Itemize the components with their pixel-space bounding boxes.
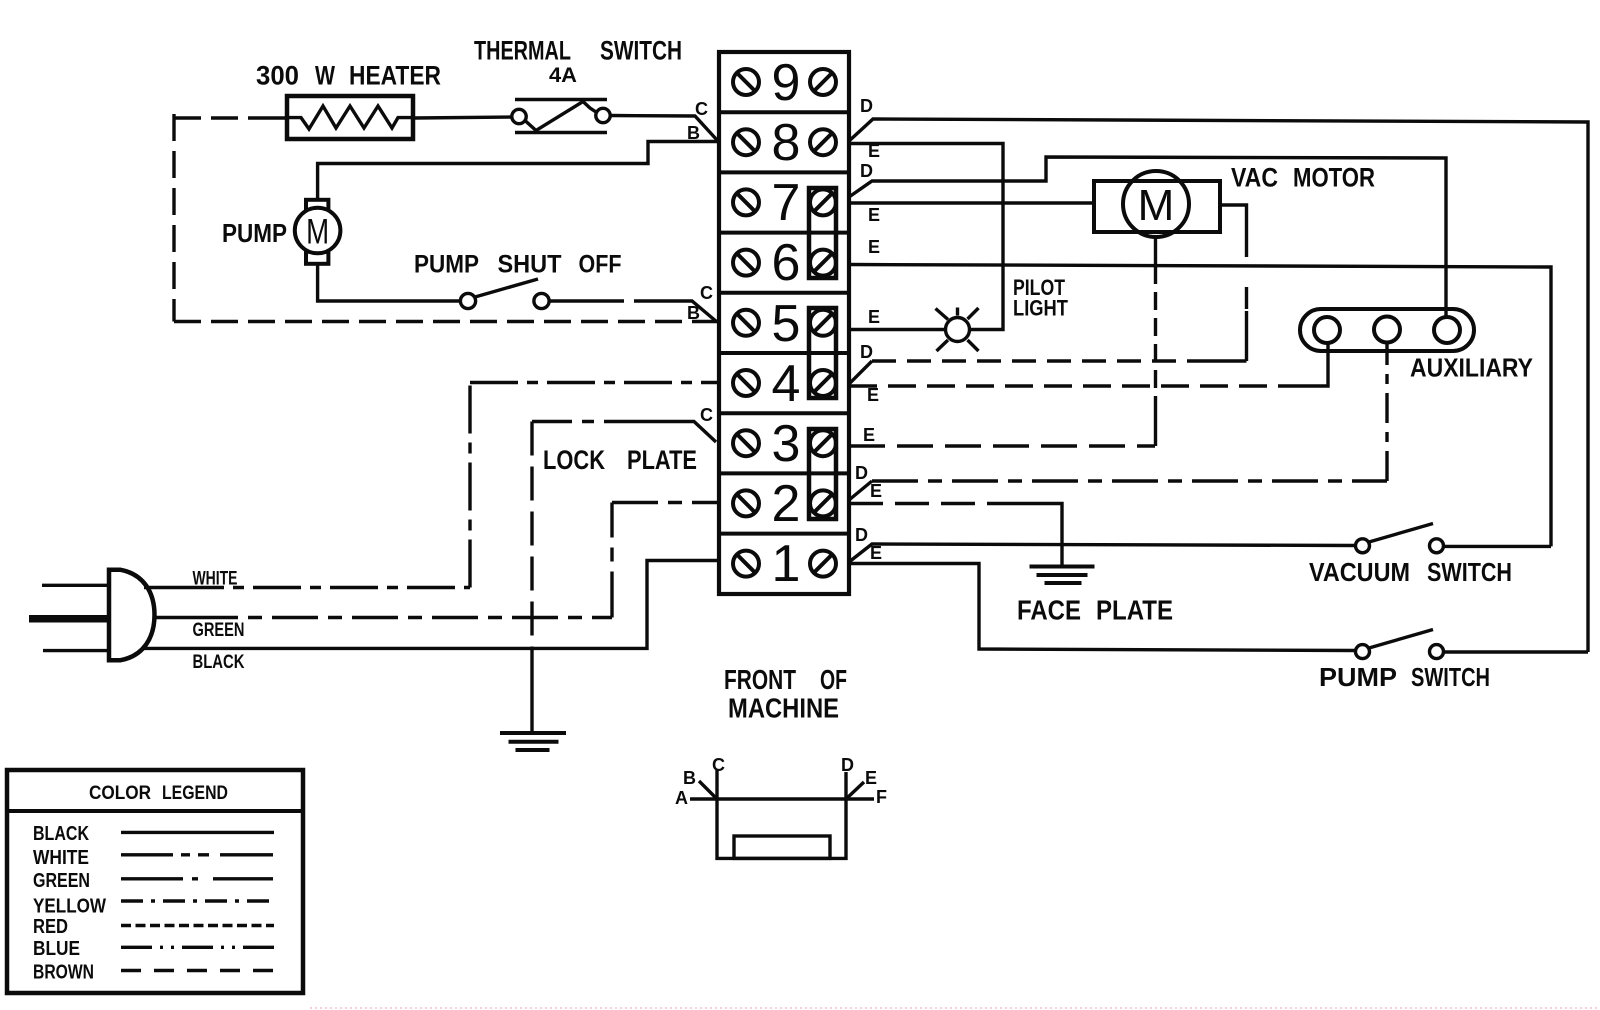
footer faint line: [310, 1007, 1600, 1009]
svg-text:VAC: VAC: [1231, 163, 1278, 193]
svg-text:FACE: FACE: [1017, 595, 1081, 626]
auxiliary outlet: [1300, 309, 1474, 351]
svg-text:M: M: [1138, 181, 1175, 230]
svg-text:PUMP: PUMP: [1319, 662, 1397, 692]
svg-text:D: D: [841, 755, 854, 775]
wire terminal 8 E to pilot light right: [849, 144, 1003, 330]
svg-text:C: C: [695, 99, 708, 119]
svg-text:D: D: [860, 96, 873, 116]
wire terminal 1 E to pump switch left: [849, 564, 1355, 651]
svg-text:E: E: [868, 237, 880, 257]
svg-text:6: 6: [772, 234, 801, 292]
svg-text:BLACK: BLACK: [193, 652, 245, 673]
svg-text:VACUUM: VACUUM: [1309, 557, 1410, 587]
vac motor circle M: [1123, 171, 1189, 237]
svg-text:SWITCH: SWITCH: [1411, 662, 1490, 692]
svg-text:4: 4: [772, 355, 801, 413]
svg-text:1: 1: [772, 535, 801, 593]
svg-text:E: E: [867, 385, 879, 405]
terminal block TB1 outline: [719, 52, 849, 594]
svg-text:E: E: [870, 543, 882, 563]
svg-text:GREEN: GREEN: [33, 870, 90, 892]
svg-text:D: D: [860, 342, 873, 362]
svg-text:4A: 4A: [549, 64, 577, 87]
wire terminal 1 D to vacuum switch left: [849, 544, 1355, 562]
terminal screws left column (slash \): [733, 69, 759, 577]
wire terminal 7 E to vac motor left: [849, 201, 1094, 204]
svg-text:BROWN: BROWN: [33, 962, 94, 984]
svg-text:3: 3: [772, 415, 801, 473]
wire terminal 4 E dashed to auxiliary left: [849, 384, 1302, 387]
svg-text:C: C: [700, 283, 713, 303]
svg-text:PUMP: PUMP: [222, 218, 287, 248]
svg-text:E: E: [868, 141, 880, 161]
wire pump switch right to far right vertical: [1444, 650, 1589, 653]
vacuum switch S3: [1356, 524, 1444, 553]
svg-text:2: 2: [772, 475, 801, 533]
wire pump shut off to terminal 5 (C) dashed: [549, 299, 594, 302]
svg-text:C: C: [712, 755, 725, 775]
svg-text:SWITCH: SWITCH: [1427, 557, 1512, 587]
svg-text:C: C: [700, 405, 713, 425]
svg-text:BLUE: BLUE: [33, 938, 80, 960]
svg-text:E: E: [865, 768, 877, 788]
wire heater to thermal switch: [414, 117, 512, 118]
svg-text:FRONT: FRONT: [724, 664, 796, 695]
wire white plug to terminal 4: [144, 586, 176, 589]
svg-text:A: A: [675, 788, 688, 808]
wire return bottom dashed to terminal 5 (B): [174, 320, 719, 323]
svg-text:E: E: [870, 481, 882, 501]
jumper link terminals 7-6: [809, 188, 836, 278]
pump switch S4: [1356, 630, 1444, 659]
pump motor M1: [295, 200, 341, 264]
svg-text:PLATE: PLATE: [627, 445, 697, 475]
wire heater return left dashed vertical: [174, 116, 262, 119]
power cord plug P1: [29, 570, 155, 661]
wire terminal 5 E to pilot light left: [849, 328, 946, 331]
thermal switch S1: [512, 100, 610, 133]
svg-text:5: 5: [772, 295, 801, 353]
svg-text:RED: RED: [33, 916, 68, 938]
svg-text:F: F: [876, 787, 887, 807]
svg-text:D: D: [855, 525, 868, 545]
svg-text:LIGHT: LIGHT: [1013, 296, 1068, 321]
svg-text:OF: OF: [820, 664, 847, 695]
resistor 300 W HEATER box: [287, 96, 413, 139]
svg-text:B: B: [683, 768, 696, 788]
wire thermal switch to terminal 8 (C): [610, 116, 717, 141]
svg-text:PLATE: PLATE: [1096, 595, 1173, 626]
wire terminal 2 D dash to auxiliary middle (green): [849, 481, 872, 500]
svg-text:M: M: [306, 213, 329, 252]
wire terminal 2 E dashed to face plate ground: [849, 502, 1013, 505]
ground face plate: [1030, 567, 1095, 584]
vac motor bottom vertical wire: [1154, 237, 1157, 266]
terminal numbers 9-1: [772, 54, 801, 593]
svg-text:THERMAL: THERMAL: [474, 36, 571, 66]
wire pump bottom to pump shut off: [318, 263, 460, 301]
wire terminal 7 D to auxiliary right: [849, 157, 1446, 317]
wire terminal 4 D dashed to motor-right vertical (red): [849, 361, 872, 384]
svg-text:LOCK: LOCK: [543, 445, 605, 475]
wire green plug to terminal 2: [154, 616, 192, 619]
svg-text:AUXILIARY: AUXILIARY: [1410, 353, 1533, 383]
jumper link terminals 3-2: [809, 429, 836, 519]
svg-text:E: E: [868, 205, 880, 225]
svg-text:SWITCH: SWITCH: [600, 36, 682, 66]
svg-text:D: D: [860, 161, 873, 181]
svg-text:300: 300: [256, 61, 299, 91]
svg-text:8: 8: [772, 114, 801, 172]
wire black plug to terminal 1: [144, 561, 719, 649]
wire vac motor right down to row4 D wire: [1220, 205, 1247, 257]
wire vacuum switch right to row6 vertical: [1444, 545, 1552, 548]
svg-text:PUMP: PUMP: [414, 251, 479, 279]
svg-text:HEATER: HEATER: [349, 61, 441, 91]
svg-text:SHUT: SHUT: [498, 251, 562, 279]
color legend box: [7, 770, 303, 993]
jumper link terminals 5-4: [809, 308, 836, 398]
svg-text:BLACK: BLACK: [33, 823, 89, 845]
svg-text:OFF: OFF: [579, 251, 622, 279]
front of machine detail drawing: [690, 770, 874, 858]
svg-text:MOTOR: MOTOR: [1293, 163, 1375, 193]
svg-text:MACHINE: MACHINE: [728, 693, 839, 724]
svg-text:W: W: [315, 61, 335, 91]
pilot light lamp: [936, 308, 979, 352]
svg-text:LEGEND: LEGEND: [162, 783, 228, 804]
svg-text:9: 9: [772, 54, 801, 112]
svg-text:COLOR: COLOR: [89, 783, 151, 804]
pump shut off switch S2: [460, 279, 549, 309]
svg-text:YELLOW: YELLOW: [33, 896, 106, 918]
vac motor box: [1094, 181, 1220, 232]
terminal screws right column (slash /): [810, 69, 836, 577]
svg-text:7: 7: [772, 174, 801, 232]
svg-text:GREEN: GREEN: [193, 620, 245, 641]
wire terminal 8 D to far right vertical to pump switch: [849, 119, 1588, 652]
svg-text:E: E: [863, 425, 875, 445]
heater element zigzag: [285, 106, 414, 129]
svg-text:E: E: [868, 307, 880, 327]
ground lock plate: [500, 733, 566, 750]
wire terminal 6 E to vacuum switch right: [849, 265, 1551, 547]
wire terminal 3 E dashed to vac motor bottom vertical: [849, 444, 1155, 447]
wire pump top to terminal 8 (B): [318, 142, 719, 201]
svg-text:WHITE: WHITE: [33, 847, 89, 869]
svg-text:D: D: [855, 463, 868, 483]
wire lock plate to terminal 3 (C) green dashed: [532, 420, 629, 423]
